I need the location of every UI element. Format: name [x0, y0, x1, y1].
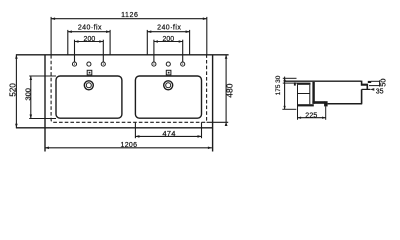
washbasin outer rim left edge (extends down as 1206 witness) [44, 55, 46, 152]
dim 474 witnesses [134, 122, 136, 138]
dim 50 witness bar from lip [368, 81, 371, 83]
dim 50 bottom witness [369, 85, 380, 87]
bowl rear wall section (thick L vertical) [312, 82, 314, 104]
washbasin outer rim bottom edge (extends left as 520 witness) [16, 127, 213, 129]
dim 240fix right witnesses [146, 30, 148, 55]
1206 arrows [45, 147, 49, 150]
dim 200 left witnesses to faucet holes [74, 40, 76, 62]
30 arrows [283, 78, 285, 81]
dim 300 top witness [29, 75, 56, 77]
dim 240fix right line [147, 31, 189, 33]
drain circle left basin [84, 81, 93, 90]
svg-text:200: 200 [84, 36, 96, 43]
svg-text:300: 300 [24, 88, 33, 101]
35 arrow [370, 88, 374, 91]
front lip and step (solid section) [361, 81, 368, 90]
1126 arrows [51, 17, 55, 20]
side view top surface line (extends left as witness to 30/175 dims) [285, 80, 362, 82]
svg-text:175: 175 [275, 84, 282, 95]
svg-text:50: 50 [379, 78, 388, 86]
svg-text:474: 474 [162, 129, 175, 138]
dim 300 line [30, 76, 32, 119]
arrowheads plan view [15, 17, 227, 149]
225 right witness from bump [325, 106, 327, 119]
bowl bottom slab (thick) [312, 101, 324, 104]
underside front line [328, 103, 363, 105]
dim 50 top witness [371, 80, 380, 82]
washbasin outer rim top edge (extends left as 520 witness, right as 480 witness) [16, 54, 229, 56]
dim 1126 line [51, 18, 207, 20]
dim 175 bottom witness [282, 108, 296, 110]
dim 1126 left witness [50, 17, 52, 55]
front lower face [361, 89, 363, 103]
dim 30/175 line [284, 77, 286, 110]
svg-text:480: 480 [225, 83, 235, 97]
474 arrows [135, 135, 139, 138]
bowl bottom bump [324, 101, 328, 106]
300 arrows [30, 76, 33, 80]
faucet holes right basin [152, 62, 156, 66]
rear nub at left [294, 82, 296, 85]
dim 200 right line [154, 41, 183, 43]
svg-text:30: 30 [275, 75, 282, 83]
side view labels [275, 75, 388, 119]
svg-text:1206: 1206 [121, 142, 138, 149]
svg-text:35: 35 [376, 89, 384, 96]
dim 30 top tick [283, 77, 297, 79]
dim 200 right witnesses to faucet holes [153, 40, 155, 62]
front lip bottom (extends right as 35 witness) [362, 88, 371, 90]
dim 474 line [135, 135, 201, 137]
svg-text:200: 200 [162, 36, 174, 43]
hidden body outline (dashed) [51, 55, 207, 122]
svg-text:1126: 1126 [121, 12, 138, 19]
200 right arrows [154, 40, 158, 43]
225 arrows [298, 117, 302, 119]
rear bottom slab (thick) [297, 104, 314, 106]
520 arrows [15, 55, 18, 59]
svg-text:240·fix: 240·fix [157, 24, 181, 31]
dim 480 line [225, 55, 227, 123]
240 left arrows [68, 30, 72, 33]
dim 240fix left line [68, 31, 110, 33]
basin bowl left (rounded) [56, 76, 122, 118]
dim 300 bottom witness [29, 118, 56, 120]
240 right arrows [147, 30, 151, 33]
basin bowl right (rounded) [135, 76, 201, 118]
side view arrowheads [283, 78, 374, 119]
svg-text:225: 225 [305, 112, 317, 119]
hidden fixing box right side [309, 85, 311, 105]
dim 240fix left witnesses [67, 30, 69, 55]
hidden fixing box divider [298, 93, 310, 95]
overflow square left basin [87, 70, 92, 75]
rear wall section bar (thick) [297, 83, 311, 85]
faucet holes left basin [72, 62, 76, 66]
dim 480 bottom witness from dashed body [207, 121, 229, 123]
washbasin outer rim right edge (extends down as 1206 witness) [212, 55, 214, 152]
200 left arrows [75, 40, 79, 43]
text labels plan view [9, 12, 235, 149]
175 bottom arrow [283, 106, 285, 109]
dim 520 line [15, 55, 17, 128]
dim 1206 line [45, 147, 212, 149]
480 arrows [225, 55, 228, 59]
dim 1126 right witness [206, 17, 208, 55]
dim 200 left line [75, 41, 104, 43]
overflow square right basin [166, 70, 171, 75]
dim 225 line [298, 117, 326, 119]
drain circle right basin [164, 81, 173, 90]
hidden fixing box left side / 225 left witness [297, 85, 299, 120]
svg-text:240·fix: 240·fix [78, 24, 102, 31]
dim 50 line [379, 80, 381, 86]
svg-text:520: 520 [9, 83, 18, 97]
dim 30 bottom witness to rear bar [283, 82, 298, 84]
